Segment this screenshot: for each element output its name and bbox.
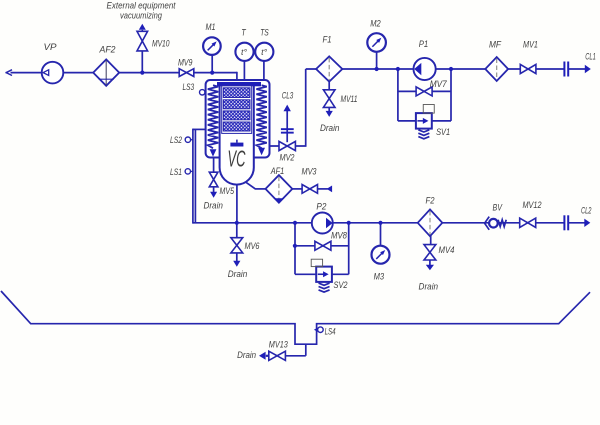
wire MV4 stem (430, 235, 432, 245)
valve MV8 (315, 241, 323, 250)
svg-text:P1: P1 (419, 39, 429, 49)
svg-text:External equipment: External equipment (107, 0, 176, 10)
valve MV4 (424, 245, 436, 253)
svg-text:LS4: LS4 (325, 327, 336, 337)
svg-text:F1: F1 (323, 35, 332, 45)
wire T sensor stem (243, 60, 245, 82)
svg-text:Drain: Drain (228, 269, 248, 279)
node MV8 corner junction (293, 244, 297, 248)
valve MV5 (209, 172, 218, 179)
level switch LS4 (314, 328, 318, 332)
filter F1 (316, 56, 342, 81)
wire LS1 stub (190, 170, 193, 172)
level switch LS2 (185, 137, 190, 142)
wire M2 gauge stem (376, 52, 378, 69)
svg-text:Drain: Drain (320, 123, 340, 133)
drain arrow MV6 (233, 261, 240, 267)
svg-text:CL2: CL2 (581, 206, 592, 216)
vessel VC inner chamber (220, 83, 254, 185)
vessel VC outer jacket (206, 80, 270, 158)
wire MV7 bypass line (398, 90, 451, 92)
valve MV2 (279, 141, 287, 150)
svg-text:Drain: Drain (203, 201, 223, 211)
svg-text:MV1: MV1 (523, 39, 538, 49)
valve MV3 (302, 185, 310, 194)
wire vessel bottom drain (236, 184, 238, 223)
heater coil right (256, 85, 266, 148)
drain arrow MV4 (426, 265, 434, 271)
air inlet arrow (327, 186, 333, 193)
svg-text:vacuumizing: vacuumizing (120, 10, 162, 20)
coupling CL3 bars (281, 128, 294, 130)
wire MV11 stem (328, 82, 330, 90)
valve MV10 (137, 31, 148, 41)
heater coil left (208, 85, 218, 148)
wire bottom drain main line (193, 222, 564, 224)
pump P2 (312, 213, 333, 234)
svg-text:M3: M3 (374, 272, 385, 282)
wire M3 gauge stem (380, 223, 382, 246)
drain arrow MV5 (210, 192, 217, 198)
svg-text:M2: M2 (370, 18, 381, 28)
wire MV5 stem (213, 157, 215, 173)
node P2 bypass left junction (293, 221, 297, 225)
node M3 junction (378, 221, 382, 225)
adsorbent cartridge frame (222, 86, 252, 134)
svg-text:BV: BV (493, 203, 503, 213)
drip tray outline (1, 291, 590, 344)
valve MV1 (520, 64, 528, 73)
wire level standpipe (193, 128, 206, 130)
coupling CL2 arrow (584, 219, 590, 227)
svg-text:CL1: CL1 (585, 52, 596, 62)
valve MV13 (269, 351, 277, 360)
svg-text:t°: t° (241, 48, 248, 57)
drain arrow MV13 (266, 355, 269, 357)
node MV10 junction (140, 71, 144, 75)
svg-text:M1: M1 (206, 22, 216, 32)
svg-text:P2: P2 (316, 202, 326, 212)
svg-text:MV3: MV3 (302, 167, 317, 177)
vessel lid flange (217, 82, 261, 86)
svg-text:MV13: MV13 (269, 339, 288, 349)
wire MV3 air inlet line (292, 188, 302, 190)
svg-text:t°: t° (261, 48, 268, 57)
coupling CL2 bars (563, 215, 565, 230)
wire MV6 stem (236, 223, 238, 238)
svg-text:MF: MF (489, 39, 501, 49)
svg-text:MV8: MV8 (331, 230, 347, 240)
pump P1 (414, 58, 436, 80)
filter MF (485, 57, 508, 81)
svg-text:MV9: MV9 (178, 58, 193, 68)
wire vacuum main line (11, 72, 238, 74)
node M1 junction (210, 71, 214, 75)
wire MV10 branch stem (141, 51, 143, 73)
adsorbent block 1 (223, 88, 250, 98)
filter AF1 (266, 175, 293, 203)
svg-text:LS2: LS2 (170, 135, 182, 145)
svg-text:TS: TS (260, 28, 269, 38)
svg-text:LS3: LS3 (183, 82, 195, 92)
valve MV12 (520, 218, 528, 227)
svg-text:VP: VP (44, 42, 57, 52)
level switch LS3 (202, 91, 206, 93)
safety valve SV2 (316, 267, 332, 282)
wire P2 bypass left leg (294, 223, 296, 274)
wire MV8 bypass line (295, 245, 349, 247)
check valve BV (485, 217, 490, 230)
wire TS sensor stem (263, 60, 265, 82)
thermometer TS (255, 43, 273, 61)
filter AF2 (93, 59, 119, 85)
safety valve SV1 (416, 113, 432, 129)
svg-text:CL3: CL3 (282, 91, 294, 101)
wire tray sump drain (305, 344, 307, 356)
svg-text:MV11: MV11 (341, 94, 358, 104)
adsorbent block 3 (223, 111, 250, 120)
valve MV9 (179, 69, 186, 77)
node M2 junction (375, 67, 379, 71)
node P2 bypass right junction (347, 221, 351, 225)
coupling CL3 arrow (284, 105, 291, 112)
valve MV6 (231, 238, 243, 246)
svg-text:MV10: MV10 (152, 38, 170, 48)
svg-text:VC: VC (228, 146, 246, 172)
wire M1 gauge stem (211, 55, 213, 73)
valve MV11 (323, 90, 335, 99)
svg-text:MV12: MV12 (523, 200, 542, 210)
drain arrow MV11 (326, 111, 333, 117)
svg-text:AF1: AF1 (270, 166, 284, 176)
adsorbent block 2 (223, 100, 250, 109)
valve MV7 (416, 87, 424, 96)
gauge M2 (367, 33, 386, 52)
thermometer T (235, 43, 253, 61)
svg-text:AF2: AF2 (99, 44, 116, 54)
coupling CL1 bars (563, 62, 565, 77)
wire LS2 stub (190, 139, 193, 141)
coupling CL1 arrow (585, 65, 591, 73)
wire top right pressure line (306, 68, 564, 70)
vacuum pump VP (42, 62, 64, 84)
svg-text:MV2: MV2 (280, 153, 295, 163)
wire vessel to AF1 diagonal (245, 181, 256, 189)
svg-text:SV2: SV2 (334, 280, 348, 290)
gauge M1 (203, 37, 221, 55)
svg-text:Drain: Drain (419, 281, 439, 291)
wire F1 riser from MV2 line (305, 69, 307, 146)
svg-text:Drain: Drain (237, 350, 256, 360)
outlet arrow to atmosphere (6, 70, 12, 73)
svg-text:MV7: MV7 (430, 79, 448, 89)
svg-text:SV1: SV1 (436, 127, 450, 137)
level switch LS1 (185, 169, 190, 174)
wire P2 bypass right leg (348, 223, 350, 274)
wire P1 bypass left leg (397, 69, 399, 121)
vessel internal plug (236, 140, 238, 143)
node MV6 junction (235, 221, 239, 225)
svg-text:F2: F2 (426, 195, 435, 205)
adsorbent block 4 (223, 122, 250, 131)
node P1 bypass right junction (449, 67, 453, 71)
gauge M3 (372, 246, 390, 264)
svg-text:MV6: MV6 (245, 241, 260, 251)
wire CL3 branch (286, 108, 288, 142)
node P1 bypass left junction (396, 67, 400, 71)
svg-text:MV5: MV5 (220, 186, 235, 196)
svg-text:MV4: MV4 (439, 245, 455, 255)
wire P1 bypass right leg (450, 69, 452, 121)
wire MV2 outlet line (270, 145, 307, 147)
filter F2 (418, 209, 443, 236)
svg-text:LS1: LS1 (170, 167, 182, 177)
